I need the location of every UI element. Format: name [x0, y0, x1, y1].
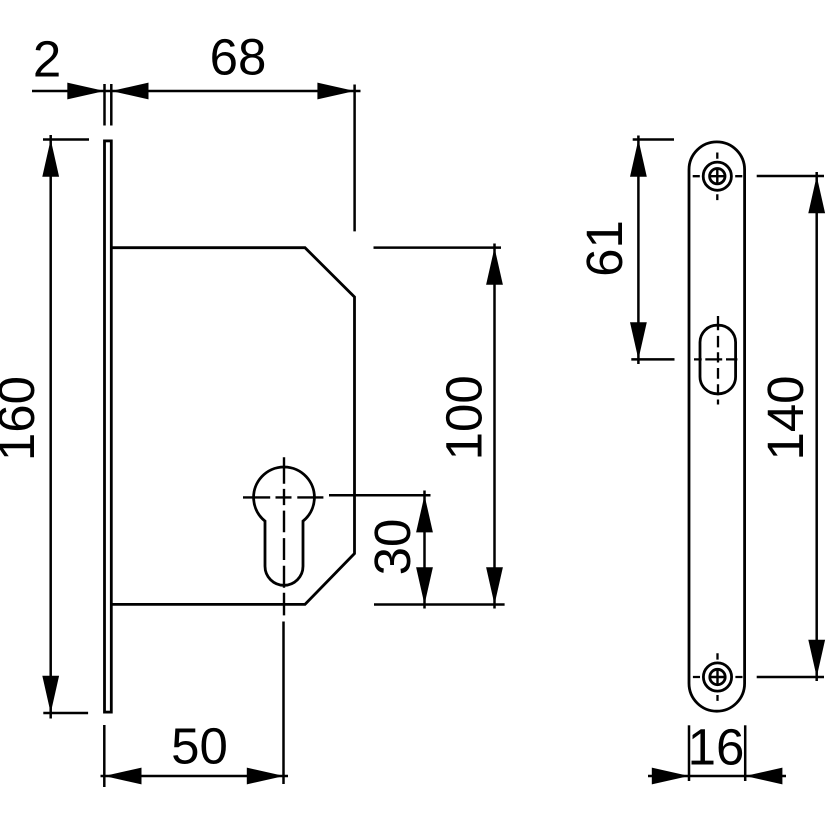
svg-text:61: 61	[576, 220, 633, 277]
svg-text:50: 50	[171, 718, 228, 775]
svg-text:68: 68	[210, 29, 267, 86]
svg-text:30: 30	[364, 519, 421, 576]
svg-text:2: 2	[33, 30, 61, 87]
svg-text:140: 140	[757, 375, 814, 460]
svg-text:100: 100	[436, 375, 493, 460]
svg-text:16: 16	[688, 718, 745, 775]
svg-text:160: 160	[0, 376, 45, 461]
